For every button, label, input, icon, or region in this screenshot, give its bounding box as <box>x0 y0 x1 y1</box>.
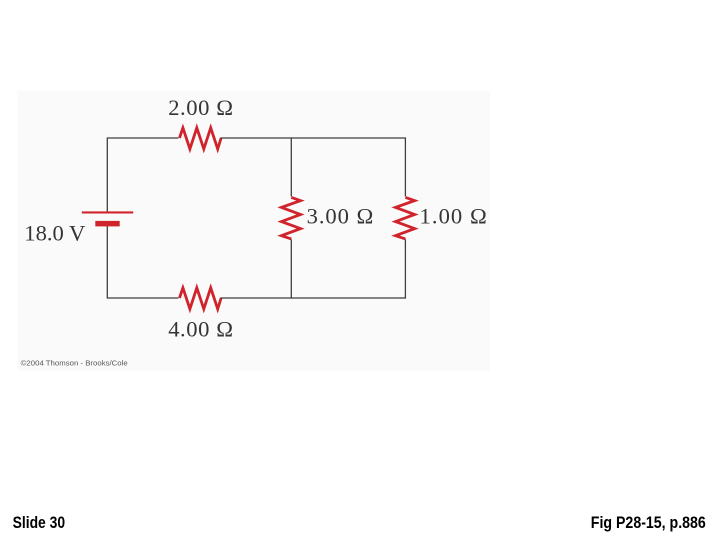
wire: bottom-right horizontal segment <box>220 297 405 299</box>
copyright caption <box>21 358 128 367</box>
resistor R1 2.00 ohm (top) <box>180 128 222 149</box>
wire: middle vertical upper segment <box>290 137 292 196</box>
wire: middle vertical lower segment <box>290 239 292 298</box>
figure panel background <box>18 91 490 371</box>
wire: top-right horizontal segment <box>220 137 405 139</box>
wire: top-left horizontal segment <box>107 137 178 139</box>
svg-text:2.00 Ω: 2.00 Ω <box>168 95 233 120</box>
wire: bottom-left horizontal segment <box>107 297 178 299</box>
resistor R2 3.00 ohm (middle) <box>281 197 300 239</box>
footer slide number <box>13 514 66 532</box>
value label 4.00 ohm <box>168 316 233 341</box>
wire: left vertical upper segment <box>106 137 108 212</box>
wire: right vertical lower segment <box>404 239 406 298</box>
svg-text:Slide 30: Slide 30 <box>13 514 66 532</box>
svg-text:18.0 V: 18.0 V <box>24 220 86 245</box>
svg-text:3.00 Ω: 3.00 Ω <box>307 204 374 229</box>
value label 1.00 ohm <box>420 204 487 229</box>
battery 18.0 V: long thin positive plate <box>82 211 133 213</box>
svg-text:©2004 Thomson - Brooks/Cole: ©2004 Thomson - Brooks/Cole <box>21 358 128 367</box>
resistor R3 1.00 ohm (right) <box>396 197 415 239</box>
resistor R4 4.00 ohm (bottom) <box>180 288 222 309</box>
value label 18.0 V <box>24 220 86 245</box>
svg-text:4.00 Ω: 4.00 Ω <box>168 316 233 341</box>
battery 18.0 V: short thick negative plate <box>95 221 119 227</box>
wire: left vertical lower segment <box>106 226 108 298</box>
svg-text:Fig P28-15, p.886: Fig P28-15, p.886 <box>591 514 706 532</box>
wire: right vertical upper segment <box>404 137 406 196</box>
svg-text:1.00 Ω: 1.00 Ω <box>420 204 487 229</box>
value label 3.00 ohm <box>307 204 374 229</box>
footer figure reference <box>591 514 706 532</box>
value label 2.00 ohm <box>168 95 233 120</box>
